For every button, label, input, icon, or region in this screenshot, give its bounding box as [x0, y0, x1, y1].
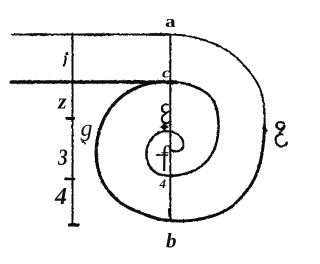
wire: left vertical line [72, 34, 74, 226]
svg-text:f: f [158, 141, 175, 172]
svg-text:c: c [162, 64, 171, 81]
junction knot at c [168, 80, 177, 84]
tick: bottom serif of left line [70, 224, 79, 227]
tick on outer arc right side [264, 128, 267, 131]
tick at y=179 on left line [66, 178, 75, 181]
spiral turn 4 (bottom left side up) [146, 131, 168, 176]
svg-text:4: 4 [54, 184, 67, 210]
spiral turn 1 lower (rightmost to b) [173, 125, 265, 221]
spiral turn 2 (b up left side to top) [96, 82, 173, 221]
speck below g [83, 142, 86, 144]
f crossbar [157, 154, 168, 156]
svg-text:4: 4 [159, 176, 167, 191]
svg-text:3: 3 [57, 145, 68, 171]
ink blob on line ab near bottom [168, 210, 172, 216]
wire: ink blobs on thin line [30, 33, 168, 36]
wire: thick horizontal line [12, 80, 165, 84]
node e: diamond marker on line [160, 123, 169, 131]
spiral turn 1 upper (a to rightmost) [171, 35, 265, 126]
spiral turn 5 innermost curl [164, 131, 184, 151]
svg-text:a: a [165, 13, 176, 32]
wire: central vertical line ab [169, 35, 171, 220]
spiral turn 3 (top right side down) [166, 82, 219, 176]
svg-text:z: z [57, 89, 67, 114]
tick at y=118 on left line [67, 117, 74, 120]
wire: thin horizontal line at top [12, 34, 171, 36]
label e (small 8-shaped glyph above diamond) [162, 104, 170, 123]
label epsilon (right of spiral) [276, 122, 287, 146]
svg-text:g: g [81, 116, 93, 142]
label 1 (old numeral on left line) [64, 53, 67, 65]
epsilon knot [282, 127, 283, 130]
svg-text:b: b [166, 229, 177, 253]
